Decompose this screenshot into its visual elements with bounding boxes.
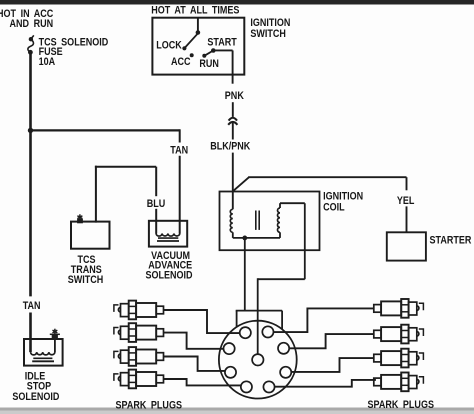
svg-text:START: START (207, 37, 237, 49)
svg-text:HOT AT ALL TIMES: HOT AT ALL TIMES (151, 5, 239, 17)
svg-text:SPARK PLUGS: SPARK PLUGS (116, 400, 183, 412)
svg-text:RUN: RUN (199, 58, 219, 70)
svg-text:PNK: PNK (225, 90, 245, 102)
svg-text:SOLENOID: SOLENOID (145, 270, 192, 282)
svg-text:LOCK: LOCK (156, 40, 182, 52)
svg-text:SOLENOID: SOLENOID (12, 391, 59, 403)
svg-text:YEL: YEL (397, 195, 415, 207)
svg-text:SWITCH: SWITCH (250, 28, 286, 40)
svg-text:COIL: COIL (323, 202, 345, 214)
svg-text:AND RUN: AND RUN (10, 18, 54, 30)
svg-text:SPARK PLUGS: SPARK PLUGS (368, 399, 435, 411)
svg-text:ACC: ACC (171, 56, 191, 68)
svg-text:BLK/PNK: BLK/PNK (210, 141, 251, 153)
svg-text:BLU: BLU (147, 198, 166, 210)
svg-text:10A: 10A (39, 56, 56, 68)
svg-text:TAN: TAN (23, 300, 41, 312)
svg-text:TAN: TAN (170, 145, 188, 157)
svg-text:SWITCH: SWITCH (68, 274, 104, 286)
svg-text:STARTER: STARTER (430, 235, 473, 247)
